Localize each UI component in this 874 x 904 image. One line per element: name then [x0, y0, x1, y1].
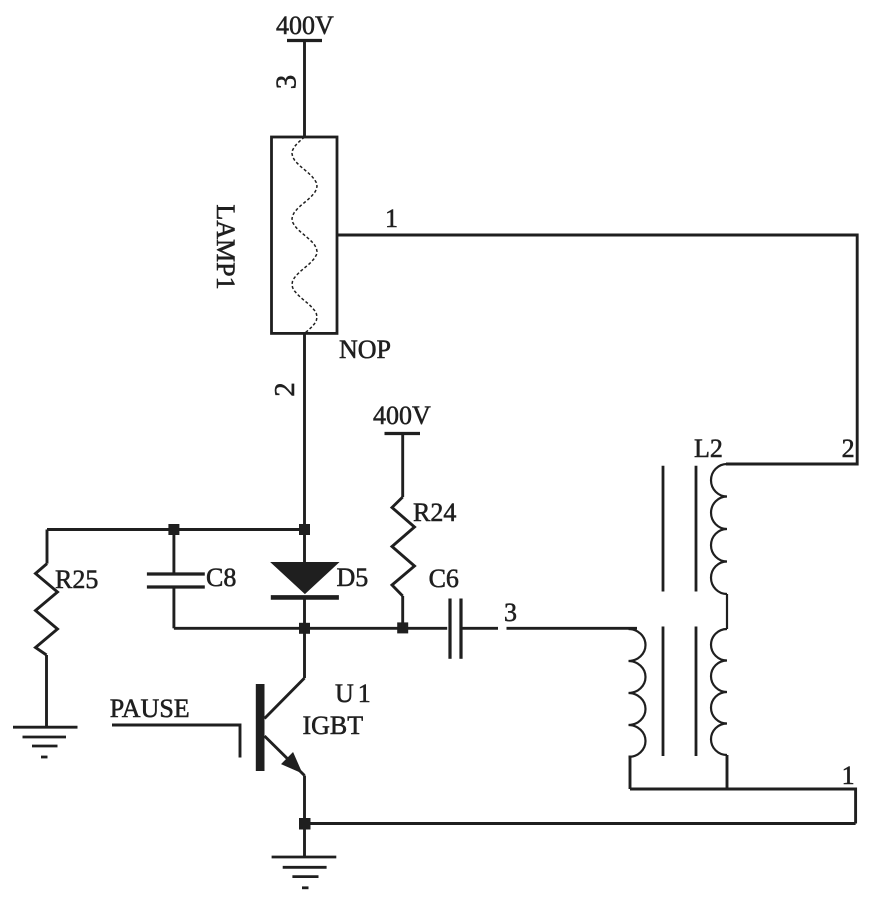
resistor R25: top lead: [46, 530, 49, 564]
IGBT U1: emitter diagonal: [265, 736, 305, 776]
resistor R25 zigzag: [36, 564, 58, 655]
capacitor C6 plates: [450, 599, 461, 659]
wire: gate lead (PAUSE net): [112, 725, 240, 758]
junction dot at C8 top: [168, 524, 179, 535]
svg-text:2: 2: [842, 434, 855, 463]
IGBT U1: collector wire from node: [303, 628, 306, 678]
wire: R25 bottom lead to ground: [45, 655, 48, 727]
wire: bottom return net: [305, 822, 856, 825]
lamp LAMP1 filament wavy curve: [292, 137, 317, 333]
capacitor C8 plates: [147, 574, 205, 587]
svg-text:LAMP1: LAMP1: [211, 204, 240, 289]
transformer L2 secondary upper winding: [711, 464, 727, 594]
IGBT U1: emitter arrow: [282, 753, 302, 773]
svg-text:R24: R24: [413, 498, 456, 527]
junction dot at IGBT collector node: [299, 623, 310, 634]
wire: R24 bottom lead: [401, 596, 404, 628]
wire: transformer bottom bar to pin 1 corner: [630, 789, 856, 824]
wire: LAMP1 pin 2 down to diode node: [303, 333, 306, 562]
svg-text:2: 2: [269, 382, 301, 397]
ground symbol (below IGBT emitter): [272, 857, 337, 888]
transformer L2 secondary lower winding: [711, 629, 727, 755]
transformer L2 primary (left) winding: [629, 629, 646, 757]
IGBT U1: channel bar: [256, 684, 265, 771]
junction dot at emitter/bottom net: [299, 818, 311, 830]
svg-text:C8: C8: [206, 563, 236, 592]
power rail bar 400V (middle): [385, 432, 421, 435]
resistor R24 zigzag: [392, 497, 415, 596]
svg-text:L2: L2: [694, 434, 723, 463]
lamp LAMP1 body rectangle: [272, 137, 338, 333]
svg-text:PAUSE: PAUSE: [110, 694, 190, 723]
wire: lower horizontal net (C8 to C6): [174, 627, 447, 630]
wire: top-left horizontal net (R25/C8/anode node): [47, 528, 305, 531]
wire: L2 secondary bottom lead: [726, 755, 729, 789]
svg-text:U1: U1: [335, 679, 375, 708]
svg-text:3: 3: [504, 598, 517, 627]
svg-text:3: 3: [271, 75, 303, 90]
transformer L2 core line (right): [695, 466, 698, 756]
transformer L2 secondary link: [726, 594, 728, 629]
wire: LAMP1 pin 1 right, down right side to L2 pin 2: [337, 235, 857, 464]
svg-text:C6: C6: [429, 564, 459, 593]
svg-text:IGBT: IGBT: [303, 711, 364, 740]
wire: 400V rail down to R24: [401, 434, 404, 498]
svg-text:1: 1: [385, 204, 398, 233]
wire: C8 bottom lead down: [172, 587, 175, 628]
wire: emitter down to bottom net: [303, 776, 306, 858]
svg-text:R25: R25: [55, 565, 98, 594]
wire: 400V rail down to LAMP1 pin 3: [303, 41, 306, 138]
wire: D5 cathode down to lower net: [303, 597, 306, 628]
wire: C6 right plate to L2 pin 3 (with pin gap): [461, 627, 637, 630]
capacitor C8: top lead: [172, 530, 175, 573]
junction dot at anode node: [299, 524, 310, 535]
wire: L2 primary bottom to bottom bar: [629, 757, 631, 789]
svg-text:400V: 400V: [276, 11, 334, 40]
IGBT U1: collector diagonal: [265, 678, 305, 719]
diode D5 cathode bar: [271, 595, 339, 600]
junction dot at R24 bottom: [397, 622, 408, 633]
svg-text:NOP: NOP: [339, 335, 391, 364]
svg-text:D5: D5: [337, 563, 369, 592]
transformer L2 core line (left): [662, 466, 665, 756]
svg-text:400V: 400V: [373, 401, 431, 430]
ground symbol (below R25): [13, 727, 78, 757]
svg-text:1: 1: [842, 761, 855, 790]
diode D5 triangle (anode): [271, 563, 338, 594]
power rail bar 400V (top): [287, 39, 322, 42]
